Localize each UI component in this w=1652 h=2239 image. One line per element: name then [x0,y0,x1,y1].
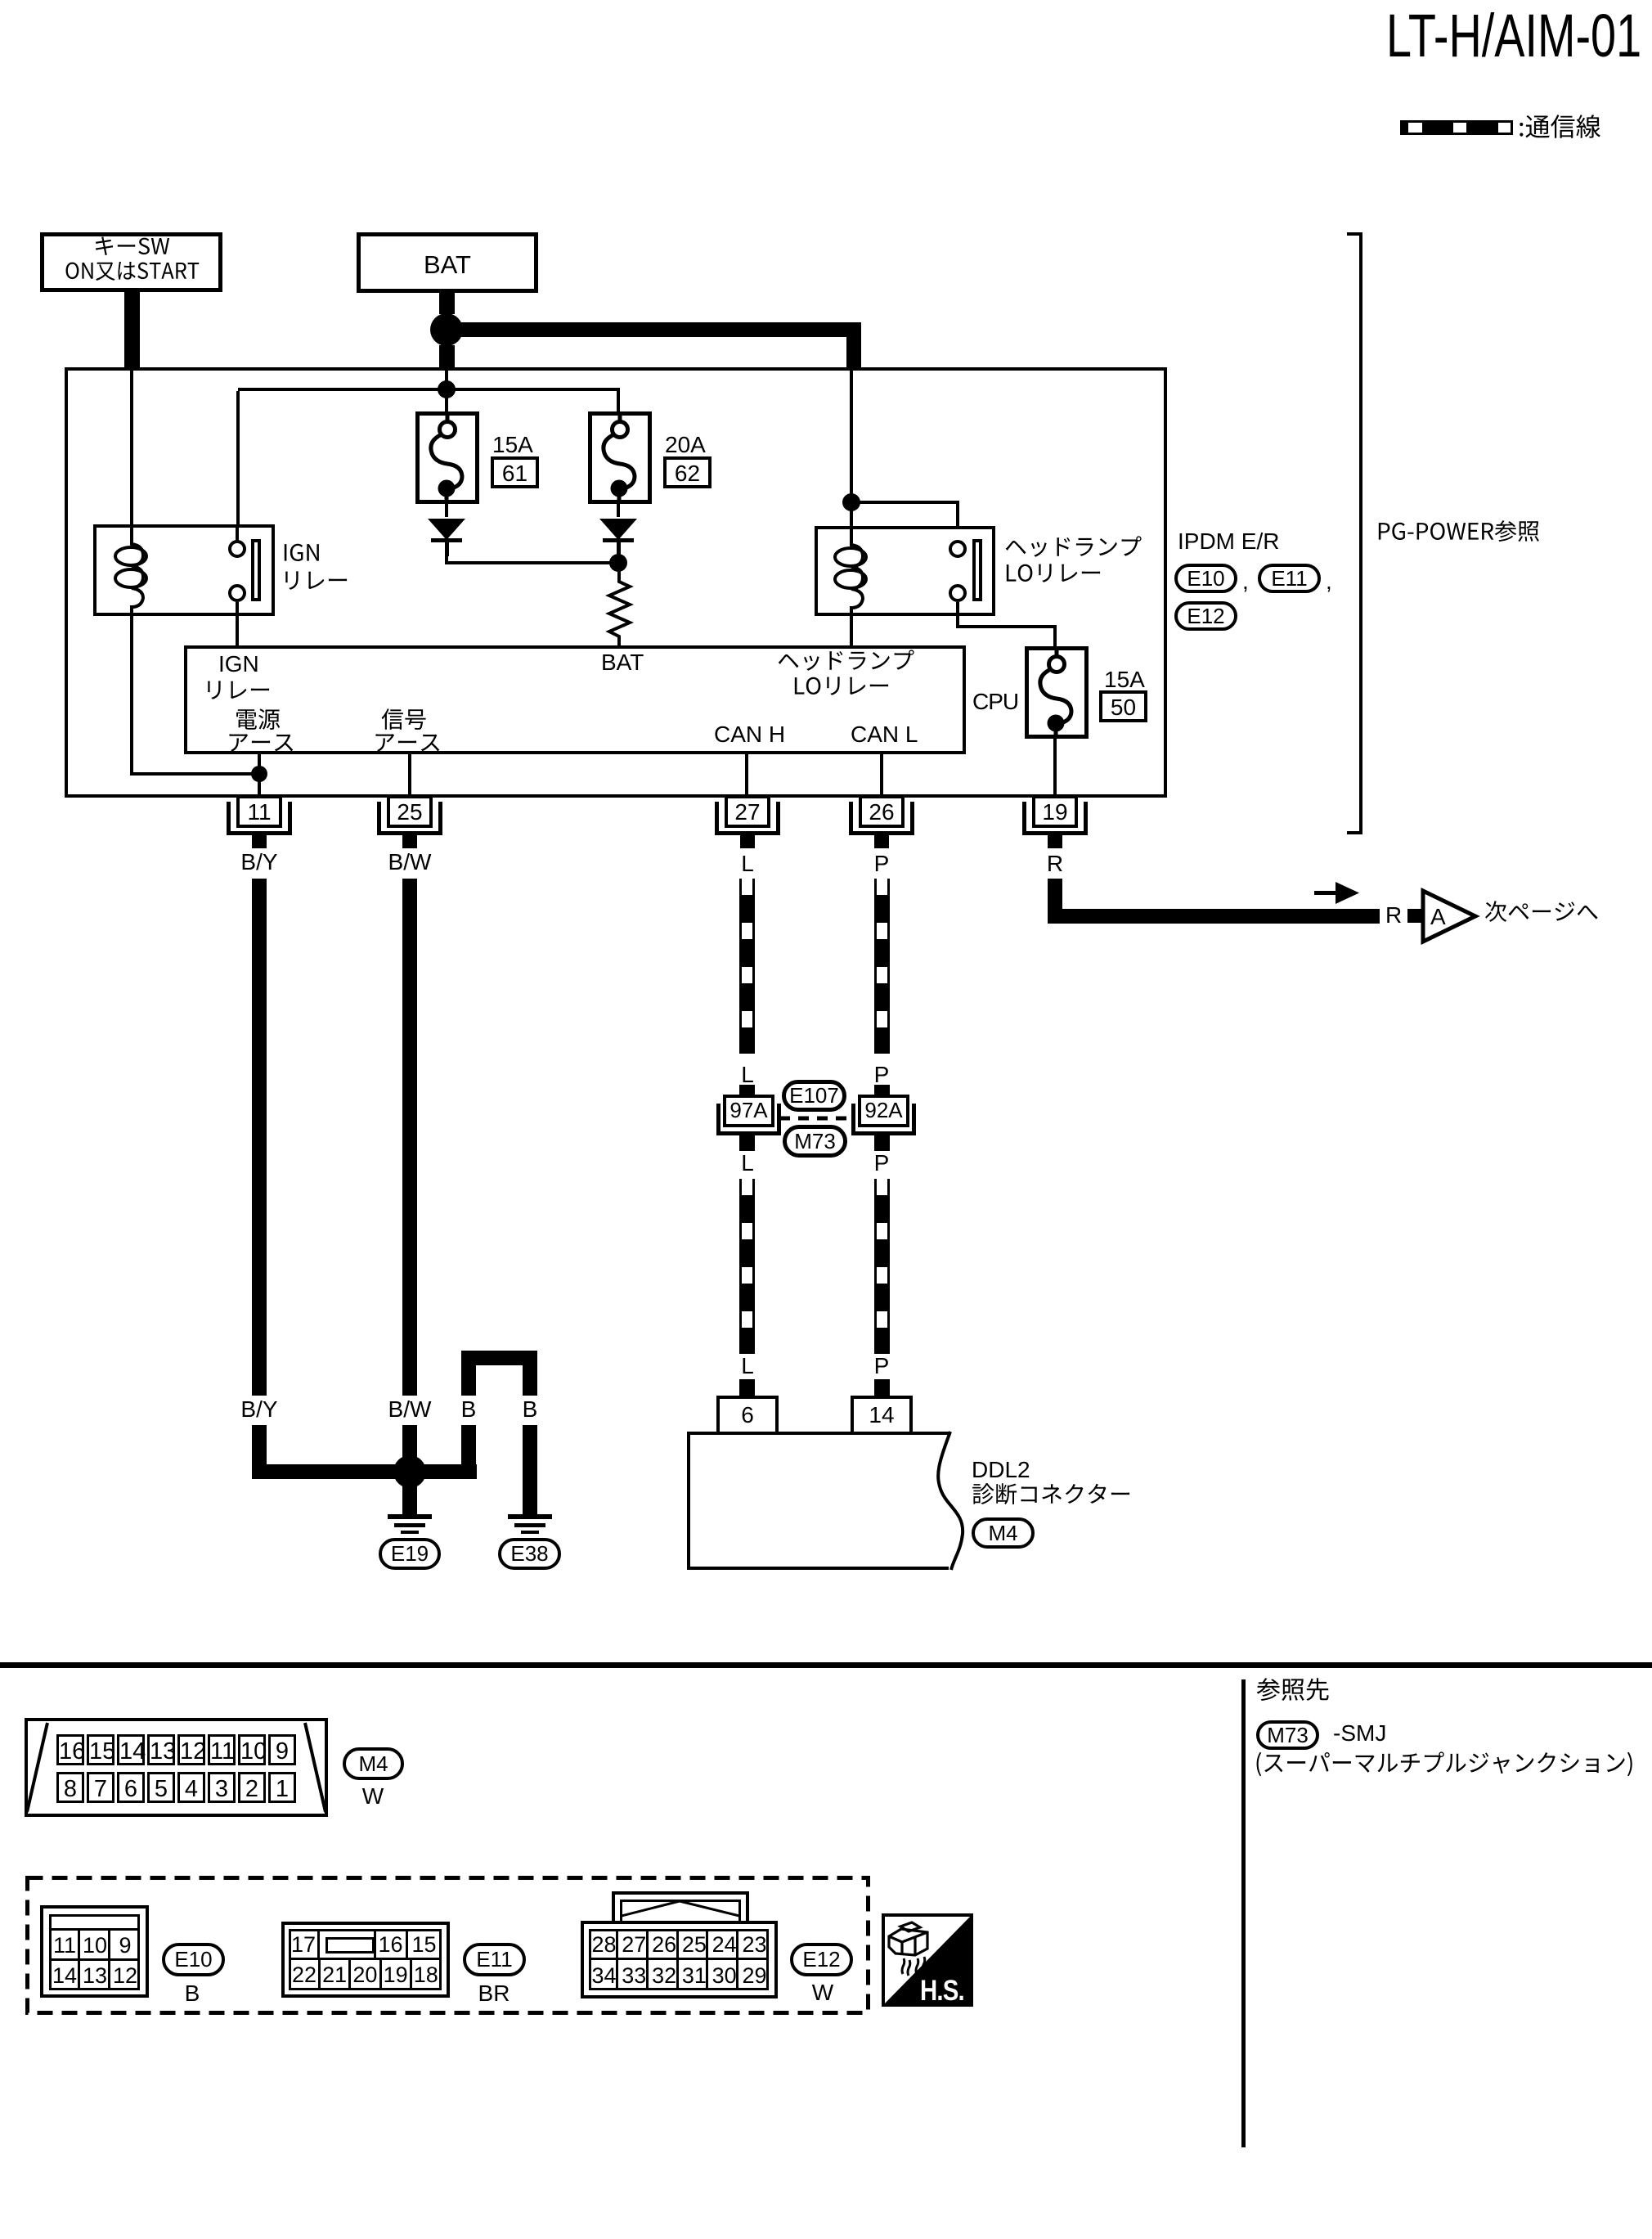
label PG-POWER参照 [1376,519,1542,544]
connector ref E12 oval [790,1943,853,1976]
title LT-H/AIM-01 [1386,1,1641,70]
ground ref E19 [379,1538,441,1570]
legend communication-line symbol [1400,120,1513,135]
connector ref M4 oval [343,1747,404,1780]
IPDM E/R outer box [65,367,1167,798]
label CAN H (cpu) [714,722,785,748]
label M4 color W [291,1783,455,1810]
label 15A fuse50 [1104,667,1145,693]
pin 26 connector [859,795,905,828]
wire BAT bus down to headlamp relay [850,371,853,527]
node BAT box [357,232,538,293]
label DDL2 [972,1457,1030,1483]
label ON又はSTART [65,259,201,283]
separator line [0,1662,1652,1668]
label L above pin6 [666,1353,829,1379]
ground ref E38 [498,1538,561,1570]
DDL2 diagnostic connector box [687,1432,949,1435]
pin 6 connector (DDL2) [716,1396,779,1432]
junction ground bus node [393,1455,426,1488]
resistor R1 (CPU BAT pulldown) [604,570,635,648]
connector 97A (SMJ) [723,1095,774,1127]
reference column divider [1241,1679,1246,2147]
connector ref M73 oval [1256,1720,1319,1750]
fuse number box 62 [663,456,712,488]
connector ref E10 oval [162,1943,225,1976]
wire relay coil to CPU [850,616,853,645]
node キーSW ON又はSTART box [40,232,222,292]
wire B/Y (thick) upper [252,879,267,1396]
label E11 color BR [412,1980,576,2007]
wire CAN-H striped upper [739,879,755,1054]
connector E12 pinout diagram [612,1891,749,1924]
label wire B/Y [177,849,341,875]
label wire P pin26 [800,851,963,877]
pin 14 connector (DDL2) [851,1396,913,1432]
off-page arrow A [1421,889,1479,943]
connector ref E107 [782,1080,846,1112]
wire stub to pin6 [739,1379,755,1396]
label L below 97A [666,1150,829,1176]
connector E11 pinout diagram [281,1922,450,1998]
connector ref E12 [1174,601,1237,631]
wire CAN-H striped lower [739,1179,755,1354]
pin 27 connector [725,795,770,828]
label スーパーマルチプルジャンクション [1255,1751,1636,1776]
label 15A fuse61 [492,432,533,458]
label BAT (cpu) [601,650,644,676]
junction headlamp relay node [842,493,860,511]
label E10 color B [110,1980,274,2007]
wire bus horizontal [238,388,620,391]
label wire B right [448,1396,612,1423]
bracket PG-POWER reference [1359,232,1362,834]
relay ヘッドランプLOリレー [815,526,995,616]
label 診断コネクター [972,1482,1134,1507]
relay IGN リレー [93,524,275,616]
label BAT [366,250,529,280]
wire CAN-L striped upper [874,879,890,1054]
wire BAT to IPDM (thick) [439,345,455,368]
label キーSW [93,235,172,259]
wire IGN contact to CPU [236,616,239,645]
legend label 通信線 [1518,114,1603,141]
connector ref E10 [1174,564,1237,593]
fuse number box 61 [491,456,539,488]
svg-text:A: A [1430,904,1446,929]
fuse number box 50 [1099,690,1147,722]
label 信号 (cpu) [381,708,429,732]
wire key relay horizontal [132,772,261,776]
wire fuse50 to pin 19 [1053,737,1057,796]
wire BAT inside down [445,371,448,414]
fuse F62 20A [588,411,652,504]
label comma2 [1326,569,1332,595]
junction bus node [438,380,456,398]
connector square A [1407,909,1421,923]
label IPDM E/R [1178,528,1279,555]
label LOリレー (cpu) [792,674,892,699]
pin 19 connector [1032,795,1078,828]
label ヘッドランプ (cpu) [777,649,916,673]
connector 92A (SMJ) [858,1095,909,1127]
connector E10 pinout diagram [40,1905,149,1998]
label wire B/Y lower [177,1396,341,1423]
label 参照先 [1256,1677,1331,1703]
diode D2 [617,502,620,517]
wire bus to IGN relay contact [236,391,240,542]
label IGN relay name line1 [282,541,323,565]
wire B/W (thick) lower [402,1425,417,1514]
connector M4 pinout diagram [25,1718,328,1817]
label wire B/W lower [328,1396,492,1423]
wire power-ground to pin 11 [258,754,261,796]
wire B/Y (thick) lower [252,1425,267,1479]
label P above 92A [800,1062,963,1088]
label wire R pin19 [973,851,1137,877]
wire stub to 92A [874,1085,890,1095]
label CPU [972,689,1018,715]
dashed link 97A-92A [779,1116,851,1121]
wire diode1 to node [445,550,448,564]
wire diode2 to node [617,550,620,555]
connector ref M73 (smj) [783,1125,847,1158]
label headlamp relay line1 [1004,535,1143,560]
label P above pin14 [800,1353,963,1379]
label 電源 (cpu) [235,708,282,732]
label 次ページへ [1484,900,1600,924]
label アース power (cpu) [227,731,297,755]
wire CAN L to pin 26 [880,754,883,796]
connector ref M4 (ddl2) [972,1517,1035,1549]
label L above 97A [666,1062,829,1088]
junction BAT-resistor node [609,554,627,572]
ground symbol E19 [388,1514,432,1519]
label CAN L (cpu) [851,722,918,748]
wire CAN-L striped lower [874,1179,890,1354]
label -SMJ [1333,1720,1386,1747]
label R next-page [1385,902,1402,928]
label 20A fuse62 [665,432,706,458]
connector ref E11 [1258,564,1321,593]
wire R (thick) to next page [1048,879,1062,924]
wire IGN coil down [130,616,133,776]
wire BAT bus to right (thick) [455,322,861,337]
ground symbol E38 [508,1514,552,1519]
diode D1 [445,502,448,517]
label wire L pin27 [666,851,829,877]
label wire B/W [328,849,492,875]
wire bus to fuse 62 [617,391,620,414]
wire B jumper n-shape [461,1351,537,1365]
wire key-sw feed (thick) [124,292,140,368]
fuse F61 15A [415,411,479,504]
wire stub to pin14 [874,1379,890,1396]
label comma1 [1242,569,1249,595]
icon H.S. (harness side view) [882,1913,973,2007]
junction BAT node [430,313,463,346]
label アース signal (cpu) [373,731,443,755]
label P below 92A [800,1150,963,1176]
wire B/W (thick) upper [402,879,417,1396]
wire stub to 97A [739,1085,755,1095]
pin 25 connector [387,795,433,828]
wire CAN H to pin 27 [745,754,748,796]
label wire B left [387,1396,550,1423]
wire B right lower [523,1425,537,1514]
fuse F50 15A [1025,646,1089,739]
arrow direction marker [1314,882,1359,905]
label IGN (cpu) [218,651,259,677]
wire signal-ground to pin 25 [408,754,411,796]
wire relay contact to fuse 50 [956,616,959,628]
wire B left lower [461,1425,476,1479]
wire key-sw inside to IGN relay coil [130,371,133,525]
svg-text:H.S.: H.S. [920,1975,964,2007]
junction ground node [251,766,267,782]
wire ground bus horizontal (thick) [252,1464,477,1479]
pin 11 connector [236,795,282,828]
CPU box (IPDM internal) [184,645,966,754]
connector ref E11 oval [463,1943,526,1976]
label E12 color W [741,1980,905,2006]
dashed group box E10 E11 E12 [25,1876,870,2015]
label headlamp relay line2 [1004,561,1104,586]
label IGN relay name line2 [281,569,351,593]
label リレー (cpu) [203,678,273,703]
wire node to relay contact [851,501,959,504]
wire BAT feed (thick) [439,293,455,314]
